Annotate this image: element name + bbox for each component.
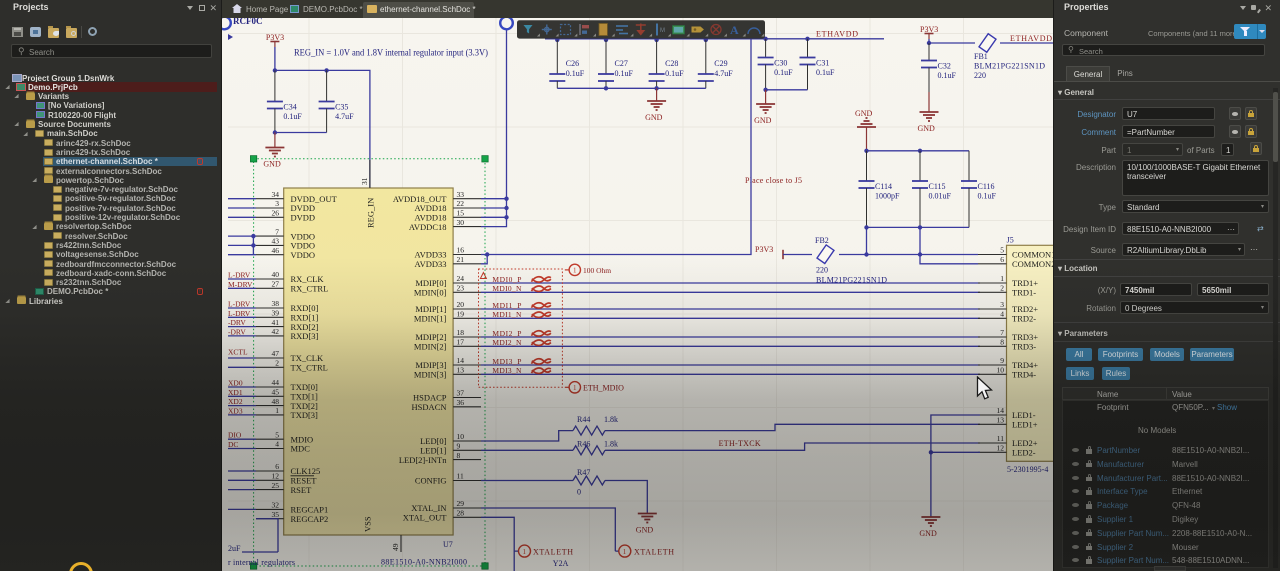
wire net RX_CTRL — [228, 287, 256, 289]
pin 9 LED[1] — [453, 449, 481, 451]
svg-text:10: 10 — [457, 432, 465, 441]
svg-text:GND: GND — [855, 109, 873, 118]
svg-text:8: 8 — [1000, 338, 1004, 347]
svg-text:C35: C35 — [335, 103, 348, 112]
ground — [919, 516, 940, 538]
svg-text:100 Ohm: 100 Ohm — [583, 266, 611, 275]
svg-text:0.1uF: 0.1uF — [615, 69, 634, 78]
svg-text:LED2-: LED2- — [1012, 448, 1036, 458]
capacitor C29 — [698, 40, 734, 88]
svg-text:0: 0 — [577, 488, 581, 497]
no-ERC / mask circle — [500, 17, 513, 30]
svg-text:1: 1 — [573, 384, 577, 392]
svg-text:RXD[3]: RXD[3] — [291, 331, 319, 341]
junction — [704, 38, 708, 42]
svg-text:CONFIG: CONFIG — [415, 476, 447, 486]
svg-text:220: 220 — [816, 266, 828, 275]
svg-text:-DRV: -DRV — [228, 318, 246, 327]
wire XTAL_OUT — [481, 517, 518, 571]
wire CONFIG — [481, 481, 647, 513]
wire net TX_CTRL — [228, 366, 256, 368]
svg-text:34: 34 — [272, 190, 280, 199]
svg-text:46: 46 — [272, 246, 280, 255]
pin 12 LED2- — [978, 451, 1007, 453]
pin 18 MDIP[2] — [453, 336, 481, 338]
svg-text:13: 13 — [457, 366, 465, 375]
pin 6 CLK125 — [256, 470, 284, 472]
svg-text:17: 17 — [457, 338, 465, 347]
connector J5 body — [1007, 245, 1055, 461]
svg-text:MDI3_N: MDI3_N — [492, 366, 522, 375]
capacitor C114 — [859, 151, 901, 228]
svg-text:C114: C114 — [875, 182, 892, 191]
svg-text:0.01uF: 0.01uF — [929, 192, 952, 201]
svg-text:3: 3 — [275, 199, 279, 208]
pin 22 AVDD18 — [453, 207, 481, 209]
pin 3 TRD2+ — [978, 308, 1007, 310]
svg-text:L-DRV: L-DRV — [228, 300, 251, 309]
svg-text:A: A — [730, 23, 739, 37]
pin 16 AVDD33 — [453, 254, 481, 256]
diff pair directive — [531, 286, 551, 291]
wire — [783, 255, 978, 264]
svg-text:22: 22 — [457, 199, 465, 208]
svg-text:13: 13 — [997, 416, 1005, 425]
svg-text:8: 8 — [457, 451, 461, 460]
svg-text:7: 7 — [1000, 328, 1004, 337]
svg-text:11: 11 — [997, 434, 1004, 443]
wire MDI3_P — [481, 364, 980, 366]
svg-text:XD3: XD3 — [228, 406, 243, 415]
svg-text:TX_CTRL: TX_CTRL — [291, 363, 328, 373]
svg-text:26: 26 — [272, 209, 280, 218]
svg-text:RSET: RSET — [291, 485, 313, 495]
net ETHAVDD rail — [545, 38, 884, 40]
svg-text:44: 44 — [272, 378, 280, 387]
svg-text:MDI1_N: MDI1_N — [492, 310, 522, 319]
svg-text:ETH_MDIO: ETH_MDIO — [583, 384, 624, 393]
pin 8 TRD3- — [978, 345, 1007, 347]
wire net RXD[2] — [228, 326, 256, 328]
pin 3 DVDD — [256, 207, 284, 209]
wire net MDC — [228, 448, 256, 450]
wire MDI2_N — [481, 345, 980, 347]
svg-text:FB2: FB2 — [815, 236, 829, 245]
svg-text:48: 48 — [272, 397, 280, 406]
blanket triangle — [480, 273, 486, 279]
diff pair directive — [531, 277, 551, 282]
no-ERC circle clipped at left edge — [218, 17, 231, 30]
svg-text:r internal regulators: r internal regulators — [228, 558, 295, 567]
wire net RX_CLK — [228, 278, 256, 280]
pin 24 MDIP[0] — [453, 282, 481, 284]
wire — [866, 227, 868, 254]
pin 11 CONFIG — [453, 480, 481, 482]
wire net RXD[1] — [228, 316, 256, 318]
svg-text:4.7uF: 4.7uF — [335, 112, 354, 121]
screencast click indicator — [69, 562, 93, 571]
pin 13 LED1+ — [978, 423, 1007, 425]
wire net TXD[2] — [228, 405, 256, 407]
svg-text:Place close to J5: Place close to J5 — [745, 176, 802, 185]
svg-text:35: 35 — [272, 510, 280, 519]
svg-text:29: 29 — [457, 499, 465, 508]
svg-text:2uF: 2uF — [228, 544, 241, 553]
svg-text:12: 12 — [997, 444, 1005, 453]
svg-text:88E1510-A0-NNB2I000: 88E1510-A0-NNB2I000 — [381, 558, 467, 567]
junction — [555, 38, 559, 42]
svg-text:0.1uF: 0.1uF — [816, 68, 835, 77]
svg-text:XD2: XD2 — [228, 397, 243, 406]
svg-text:MDI2_P: MDI2_P — [492, 329, 521, 338]
pin 49 VSS — [400, 535, 402, 552]
svg-text:VSS: VSS — [363, 516, 373, 532]
wire — [867, 150, 970, 152]
svg-text:MDIN[1]: MDIN[1] — [414, 314, 447, 324]
junction — [273, 68, 277, 72]
svg-text:27: 27 — [272, 280, 280, 289]
svg-text:TRD4-: TRD4- — [1012, 370, 1036, 380]
svg-text:C29: C29 — [714, 59, 727, 68]
svg-text:5-2301995-4: 5-2301995-4 — [1007, 465, 1048, 474]
pin 37 HSDACP — [453, 397, 481, 399]
junction — [763, 37, 767, 41]
svg-text:U7: U7 — [443, 540, 453, 549]
svg-text:19: 19 — [457, 310, 465, 319]
wire net DVDD — [228, 207, 256, 209]
svg-text:1: 1 — [1000, 274, 1004, 283]
diff pair directive — [531, 340, 551, 345]
off sheet XTALETH 2 — [619, 545, 631, 557]
diff pair directive — [531, 368, 551, 373]
svg-text:GND: GND — [919, 529, 937, 538]
svg-text:TRD2-: TRD2- — [1012, 314, 1036, 324]
pin 33 AVDD18_OUT — [453, 198, 481, 200]
svg-text:MDI0_P: MDI0_P — [492, 275, 521, 284]
capacitor C35 — [319, 70, 355, 132]
pin 42 RXD[3] — [256, 335, 284, 337]
svg-text:38: 38 — [272, 299, 280, 308]
svg-text:TXD[3]: TXD[3] — [291, 410, 319, 420]
pin 28 XTAL_OUT — [453, 516, 481, 518]
svg-text:ETHAVDD: ETHAVDD — [1010, 34, 1052, 43]
svg-text:R46: R46 — [577, 439, 590, 448]
svg-text:DVDD: DVDD — [291, 213, 316, 223]
off sheet XTALETH 1 — [519, 545, 531, 557]
ground — [636, 513, 657, 535]
svg-text:9: 9 — [457, 442, 461, 451]
capacitor C30 — [758, 39, 794, 90]
svg-text:AVDDC18: AVDDC18 — [409, 222, 447, 232]
pin 36 HSDACN — [453, 406, 481, 408]
op-amp U1 body: transceiver U7 — [284, 188, 453, 535]
svg-text:C27: C27 — [615, 59, 628, 68]
svg-text:37: 37 — [457, 389, 465, 398]
wire XTAL_IN — [481, 508, 619, 551]
capacitor C31 — [800, 39, 836, 90]
pin 10 TRD4- — [978, 373, 1007, 375]
svg-text:32: 32 — [272, 501, 280, 510]
pin 2 TX_CTRL — [256, 366, 284, 368]
junction — [604, 38, 608, 42]
svg-text:C31: C31 — [816, 59, 829, 68]
svg-text:GND: GND — [636, 526, 654, 535]
wire net TXD[1] — [228, 395, 256, 397]
svg-text:REG_IN: REG_IN — [366, 198, 376, 228]
junction — [927, 41, 931, 45]
junction — [504, 197, 508, 201]
wire MDI2_P — [481, 336, 980, 338]
svg-text:MDI1_P: MDI1_P — [492, 301, 521, 310]
pin 30 AVDDC18 — [453, 226, 481, 228]
wire net TXD[0] — [228, 386, 256, 388]
pin 41 RXD[2] — [256, 326, 284, 328]
pin 21 AVDD33 — [453, 263, 481, 265]
svg-text:49: 49 — [391, 543, 400, 551]
wire net RXD[3] — [228, 335, 256, 337]
diff pair directive — [531, 303, 551, 308]
pin 19 MDIN[1] — [453, 317, 481, 319]
wire net CLK125 — [228, 470, 256, 472]
capacitor C32 — [921, 43, 957, 92]
resistor R44 — [573, 426, 605, 435]
wire net TXD[3] — [228, 414, 256, 416]
svg-text:TRD1-: TRD1- — [1012, 288, 1036, 298]
blanket directive — [479, 269, 563, 387]
svg-text:MDI3_P: MDI3_P — [492, 357, 521, 366]
wire AVDD18 — [481, 30, 507, 227]
capacitor C27 — [598, 40, 634, 88]
capacitor C28 — [649, 40, 685, 88]
svg-text:7: 7 — [275, 227, 279, 236]
pin 5 COMMON1 — [978, 254, 1007, 256]
svg-text:C30: C30 — [774, 59, 787, 68]
wire LED0 — [481, 424, 980, 441]
wire net VDDO — [228, 244, 256, 246]
svg-text:VDDO: VDDO — [291, 250, 316, 260]
pin 35 REGCAP2 — [256, 518, 284, 520]
wire — [929, 39, 1053, 43]
svg-text:0.1uF: 0.1uF — [283, 112, 302, 121]
capacitor C34 — [267, 70, 303, 132]
wire MDI1_N — [481, 317, 980, 319]
pin 26 DVDD — [256, 216, 284, 218]
svg-text:MDI2_N: MDI2_N — [492, 338, 522, 347]
svg-text:1.8k: 1.8k — [604, 439, 618, 448]
svg-text:41: 41 — [272, 318, 280, 327]
pin 14 MDIP[3] — [453, 364, 481, 366]
wire bus — [557, 87, 706, 89]
svg-text:LED1+: LED1+ — [1012, 420, 1038, 430]
wire — [766, 89, 808, 91]
svg-text:C116: C116 — [978, 182, 995, 191]
junction — [273, 130, 277, 134]
ferrite bead FB1 — [979, 34, 996, 53]
svg-text:0.1uF: 0.1uF — [978, 192, 997, 201]
svg-text:REG_IN = 1.0V and 1.8V interna: REG_IN = 1.0V and 1.8V internal regulato… — [294, 48, 488, 59]
pin 34 DVDD_OUT — [256, 198, 284, 200]
svg-text:47: 47 — [272, 349, 280, 358]
svg-text:HSDACN: HSDACN — [412, 402, 447, 412]
wire MDI0_P — [481, 282, 980, 284]
svg-text:C34: C34 — [283, 103, 296, 112]
svg-text:25: 25 — [272, 481, 280, 490]
svg-text:COMMON2: COMMON2 — [1012, 259, 1053, 269]
junction — [604, 86, 608, 90]
pin 17 MDIN[2] — [453, 345, 481, 347]
pin 25 RSET — [256, 489, 284, 491]
svg-text:30: 30 — [457, 218, 465, 227]
wire LED1- — [931, 415, 980, 516]
pin 2 TRD1- — [978, 291, 1007, 293]
svg-text:DC: DC — [228, 440, 238, 449]
svg-text:0.1uF: 0.1uF — [774, 68, 793, 77]
svg-text:2: 2 — [1000, 284, 1004, 293]
svg-text:5: 5 — [275, 430, 279, 439]
svg-text:21: 21 — [457, 255, 465, 264]
svg-text:MDC: MDC — [291, 444, 311, 454]
svg-text:15: 15 — [457, 209, 465, 218]
pin 44 TXD[0] — [256, 386, 284, 388]
svg-text:12: 12 — [272, 472, 280, 481]
svg-text:L-DRV: L-DRV — [228, 309, 251, 318]
svg-text:6: 6 — [275, 462, 279, 471]
wire net VDDO — [228, 235, 256, 237]
wire LED1 — [481, 443, 980, 450]
wire net TX_CLK — [228, 357, 256, 359]
svg-text:0.1uF: 0.1uF — [665, 69, 684, 78]
svg-text:R47: R47 — [577, 468, 590, 477]
junction — [654, 38, 658, 42]
pin 40 RX_CLK — [256, 278, 284, 280]
svg-text:Y2A: Y2A — [553, 559, 569, 568]
wire — [919, 227, 921, 254]
junction — [864, 225, 868, 229]
svg-text:42: 42 — [272, 327, 280, 336]
svg-text:4.7uF: 4.7uF — [714, 69, 733, 78]
mouse cursor — [976, 376, 994, 402]
junction — [763, 88, 767, 92]
svg-text:XD0: XD0 — [228, 379, 243, 388]
svg-text:P3V3: P3V3 — [266, 33, 284, 42]
pin 20 MDIP[1] — [453, 308, 481, 310]
resistor R46 — [573, 446, 605, 455]
svg-text:BLM21PG221SN1D: BLM21PG221SN1D — [974, 62, 1045, 71]
svg-text:1000pF: 1000pF — [875, 192, 900, 201]
junction — [918, 149, 922, 153]
svg-text:10: 10 — [997, 366, 1005, 375]
pin 1 TRD1+ — [978, 282, 1007, 284]
svg-text:REGCAP2: REGCAP2 — [291, 514, 329, 524]
pin 14 LED1- — [978, 414, 1007, 416]
pin 4 MDC — [256, 448, 284, 450]
pin 32 REGCAP1 — [256, 508, 284, 510]
svg-text:LED[2]-INTn: LED[2]-INTn — [399, 455, 447, 465]
svg-text:J5: J5 — [1007, 236, 1014, 245]
svg-text:C115: C115 — [929, 182, 946, 191]
wire net MDIO — [228, 438, 256, 440]
svg-text:16: 16 — [457, 246, 465, 255]
svg-text:14: 14 — [997, 406, 1005, 415]
junction — [929, 450, 933, 454]
wire net DVDD — [228, 216, 256, 218]
pin 45 TXD[1] — [256, 395, 284, 397]
svg-text:24: 24 — [457, 274, 465, 283]
power port P3V3 — [266, 33, 284, 47]
pin 39 RXD[1] — [256, 316, 284, 318]
svg-text:XD1: XD1 — [228, 388, 243, 397]
svg-text:36: 36 — [457, 398, 465, 407]
svg-text:MDIN[2]: MDIN[2] — [414, 342, 447, 352]
pin 31 REG_IN — [369, 160, 371, 188]
svg-text:4: 4 — [1000, 310, 1004, 319]
svg-text:C26: C26 — [566, 59, 579, 68]
pin 23 MDIN[0] — [453, 291, 481, 293]
pin 10 LED[0] — [453, 440, 481, 442]
pin 1 TXD[3] — [256, 414, 284, 416]
svg-text:XTAL_OUT: XTAL_OUT — [403, 513, 448, 523]
svg-text:R44: R44 — [577, 415, 590, 424]
wire MDI3_N — [481, 373, 980, 375]
svg-text:5: 5 — [1000, 246, 1004, 255]
parameter set 100 Ohm — [565, 269, 569, 271]
pin 38 RXD[0] — [256, 307, 284, 309]
svg-text:XTALETH: XTALETH — [634, 548, 674, 557]
wire AVDD33 — [481, 39, 751, 264]
wire MDI1_P — [481, 308, 980, 310]
svg-text:43: 43 — [272, 237, 280, 246]
svg-text:ETH-TXCK: ETH-TXCK — [719, 439, 761, 448]
svg-text:4: 4 — [275, 440, 279, 449]
svg-text:14: 14 — [457, 356, 465, 365]
pin 12 RESET — [256, 479, 284, 481]
pin 4 TRD2- — [978, 317, 1007, 319]
svg-text:40: 40 — [272, 270, 280, 279]
svg-text:L-DRV: L-DRV — [228, 271, 251, 280]
svg-text:GND: GND — [263, 160, 281, 169]
wire net VDDO — [228, 254, 256, 256]
ferrite bead FB2 — [817, 245, 834, 264]
wire net DVDD_OUT — [228, 198, 256, 200]
ground — [263, 133, 284, 169]
junction — [485, 252, 489, 256]
svg-text:11: 11 — [457, 472, 464, 481]
diff pair directive — [531, 359, 551, 364]
wire MDI0_N — [481, 291, 980, 293]
pin 9 TRD4+ — [978, 364, 1007, 366]
pin 7 VDDO — [256, 235, 284, 237]
ground — [754, 90, 775, 125]
wire entry marker left edge — [228, 34, 233, 40]
pin 48 TXD[2] — [256, 405, 284, 407]
svg-text:FB1: FB1 — [974, 52, 988, 61]
svg-text:MDIN[0]: MDIN[0] — [414, 288, 447, 298]
diff pair directive — [531, 312, 551, 317]
pin 29 XTAL_IN — [453, 507, 481, 509]
pin 15 AVDD18 — [453, 216, 481, 218]
svg-text:45: 45 — [272, 388, 280, 397]
ground (up) — [855, 109, 876, 151]
svg-text:MDIN[3]: MDIN[3] — [414, 370, 447, 380]
ground — [918, 92, 939, 133]
svg-text:XCTL: XCTL — [228, 348, 248, 357]
floating active bar — [517, 20, 765, 38]
svg-text:28: 28 — [457, 509, 465, 518]
wire net REGCAP2 — [256, 519, 278, 552]
svg-text:XTALETH: XTALETH — [533, 548, 573, 557]
pin 47 TX_CLK — [256, 357, 284, 359]
svg-text:1: 1 — [523, 548, 527, 556]
